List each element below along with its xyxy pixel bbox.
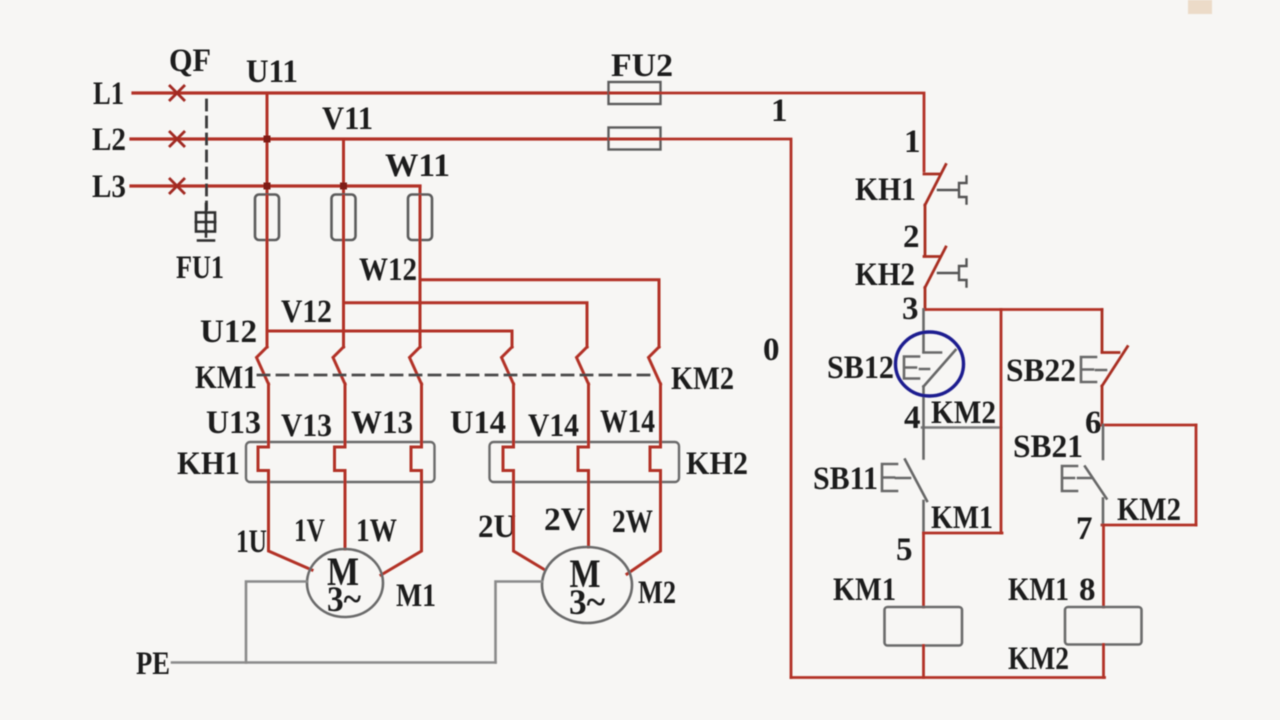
svg-text:KM2: KM2 xyxy=(1008,641,1069,677)
wire node 5 xyxy=(924,532,1003,535)
svg-text:0: 0 xyxy=(763,332,780,368)
junction blob U11-L3 xyxy=(264,183,271,190)
thermal relay KH2 heater W xyxy=(650,442,661,482)
thermal relay KH1 box xyxy=(246,442,435,482)
wire node 3 xyxy=(924,308,1102,311)
svg-text:1W: 1W xyxy=(356,513,397,549)
svg-text:KH1: KH1 xyxy=(855,172,916,208)
wire W14 xyxy=(659,384,662,442)
wire node 6 xyxy=(1102,424,1196,427)
svg-text:3: 3 xyxy=(902,291,919,327)
motor M2 xyxy=(542,547,632,623)
svg-text:2U: 2U xyxy=(478,509,516,545)
svg-text:KM2: KM2 xyxy=(671,361,734,397)
svg-text:6: 6 xyxy=(1085,405,1102,441)
contactor KM1 main contact U xyxy=(257,347,269,384)
wire U12 branch xyxy=(267,331,512,347)
wire V11 below fuse xyxy=(342,196,345,347)
wire W11 below fuse xyxy=(419,196,422,347)
breaker QF pole L1 xyxy=(170,86,184,100)
svg-text:KM2: KM2 xyxy=(931,395,996,431)
wire PE xyxy=(172,661,496,664)
wire 1 xyxy=(661,93,925,171)
wire 1U to motor xyxy=(269,482,313,570)
svg-text:W14: W14 xyxy=(600,404,655,440)
svg-text:2V: 2V xyxy=(544,502,585,538)
svg-text:KM2: KM2 xyxy=(1117,492,1181,528)
fuse FU1 pole W xyxy=(408,195,432,241)
wire 0 xyxy=(661,139,792,678)
svg-text:V13: V13 xyxy=(281,408,332,444)
motor M1 xyxy=(307,549,383,619)
svg-text:V14: V14 xyxy=(528,408,579,444)
fuse FU1 symbol xyxy=(196,204,215,241)
smudge top right xyxy=(1188,0,1212,14)
fuse FU2 pole 1 xyxy=(609,82,661,104)
svg-text:L1: L1 xyxy=(93,76,124,112)
thermal relay KH1 heater W xyxy=(411,442,422,482)
pushbutton SB12 stop NC xyxy=(904,310,956,428)
wire to coil KM1 xyxy=(922,533,925,607)
wire bottom rail 0 xyxy=(791,676,1105,679)
svg-text:M2: M2 xyxy=(638,575,676,611)
wire V11 drop xyxy=(342,139,345,195)
svg-text:KH1: KH1 xyxy=(177,446,240,482)
wire U13 xyxy=(267,384,270,442)
svg-text:SB22: SB22 xyxy=(1006,353,1076,389)
svg-text:7: 7 xyxy=(1076,511,1093,547)
wire to coil KM2 xyxy=(1102,525,1105,607)
wire 2V to motor xyxy=(587,482,590,547)
svg-text:1U: 1U xyxy=(236,524,267,560)
wire W12 branch xyxy=(420,280,659,347)
junction blob V11-L3 xyxy=(340,183,347,190)
wire 2W to motor xyxy=(627,482,661,574)
thermal contact KH1 actuator xyxy=(938,177,967,204)
svg-text:SB21: SB21 xyxy=(1013,429,1083,465)
thermal relay KH2 box xyxy=(490,442,680,482)
svg-text:U12: U12 xyxy=(200,314,257,350)
wire L2 xyxy=(131,137,609,140)
svg-text:3~: 3~ xyxy=(327,579,361,619)
contactor KM1 main contact V xyxy=(333,347,345,384)
pushbutton SB22 stop NC xyxy=(1102,310,1128,426)
contactor KM2 main contact U xyxy=(502,347,514,384)
svg-text:2W: 2W xyxy=(612,504,653,540)
coil KM2 xyxy=(1065,607,1142,645)
wire V13 xyxy=(344,384,347,442)
svg-text:M1: M1 xyxy=(396,578,436,614)
wire node 7 xyxy=(1102,524,1196,527)
svg-text:V11: V11 xyxy=(322,101,373,137)
wire holding branch KM1 xyxy=(1000,310,1003,534)
svg-text:V12: V12 xyxy=(281,294,332,330)
wire node 4 xyxy=(922,426,1001,429)
svg-text:FU2: FU2 xyxy=(611,48,673,84)
svg-text:W11: W11 xyxy=(385,148,450,184)
svg-text:U11: U11 xyxy=(246,54,298,90)
thermal relay KH1 heater U xyxy=(258,442,269,482)
wire PE to M1 xyxy=(246,582,307,663)
svg-text:KH2: KH2 xyxy=(686,446,748,482)
fuse FU1 pole V xyxy=(332,195,356,241)
svg-text:U14: U14 xyxy=(450,405,506,441)
svg-text:1: 1 xyxy=(771,93,788,129)
svg-text:4: 4 xyxy=(904,400,921,436)
wire coil KM1 to rail xyxy=(922,646,925,678)
svg-text:W13: W13 xyxy=(351,405,413,441)
breaker QF linkage xyxy=(205,100,208,209)
junction blob U11-L2 xyxy=(264,136,271,143)
thermal relay KH2 heater U xyxy=(503,442,514,482)
svg-text:PE: PE xyxy=(136,646,170,682)
wire L3 xyxy=(131,184,420,187)
svg-text:FU1: FU1 xyxy=(176,250,224,286)
fuse FU2 pole 0 xyxy=(609,128,661,150)
svg-text:W12: W12 xyxy=(359,252,417,288)
pushbutton SB21 start NO xyxy=(1062,425,1107,525)
svg-text:QF: QF xyxy=(169,43,211,79)
wire 1W to motor xyxy=(381,482,422,575)
svg-text:U13: U13 xyxy=(206,405,261,441)
highlight circle around SB12 xyxy=(896,332,964,396)
svg-text:SB11: SB11 xyxy=(813,461,878,497)
contactor KM1 main contact W xyxy=(410,347,422,384)
wire W11 drop xyxy=(419,186,422,195)
thermal contact KH2 actuator xyxy=(938,260,967,287)
wire 2U to motor xyxy=(514,482,546,570)
wire L1 xyxy=(133,91,609,94)
wire holding branch KM2 xyxy=(1195,425,1198,525)
contactor linkage dashed xyxy=(258,374,650,377)
breaker QF pole L3 xyxy=(170,179,184,193)
breaker QF pole L2 xyxy=(170,132,184,146)
contactor KM2 main contact V xyxy=(577,347,589,384)
svg-text:KM1: KM1 xyxy=(195,360,257,396)
svg-text:1: 1 xyxy=(904,124,921,160)
wire PE to M2 xyxy=(496,582,543,663)
fuse FU1 pole U xyxy=(255,195,279,241)
thermal relay KH2 heater V xyxy=(578,442,589,482)
wire U11 below fuse xyxy=(266,196,269,347)
pushbutton SB11 start NO xyxy=(882,428,927,534)
svg-text:KM1: KM1 xyxy=(833,572,896,608)
svg-text:L3: L3 xyxy=(92,169,126,205)
contactor KM2 main contact W xyxy=(649,347,661,384)
coil KM1 xyxy=(885,607,963,646)
svg-text:8: 8 xyxy=(1079,572,1096,608)
wire U14 xyxy=(512,384,515,442)
svg-text:3~: 3~ xyxy=(569,582,605,622)
svg-text:SB12: SB12 xyxy=(827,350,894,386)
svg-text:KM1: KM1 xyxy=(931,500,993,536)
svg-text:KM1: KM1 xyxy=(1008,572,1069,608)
svg-text:L2: L2 xyxy=(92,122,126,158)
thermal contact KH2 xyxy=(924,247,946,310)
svg-text:2: 2 xyxy=(903,219,920,255)
thermal relay KH1 heater V xyxy=(335,442,346,482)
thermal contact KH1 xyxy=(924,165,946,257)
wire U11 drop xyxy=(266,93,269,195)
wire V14 xyxy=(587,384,590,442)
wire V12 branch xyxy=(344,303,588,347)
svg-text:5: 5 xyxy=(896,532,913,568)
wire W13 xyxy=(420,384,423,442)
wire coil KM2 to rail xyxy=(1102,645,1105,678)
pushbutton SB22 actuator xyxy=(1081,357,1106,382)
svg-text:1V: 1V xyxy=(294,513,325,549)
svg-text:KH2: KH2 xyxy=(855,257,915,293)
wire 1V to motor xyxy=(344,482,347,549)
